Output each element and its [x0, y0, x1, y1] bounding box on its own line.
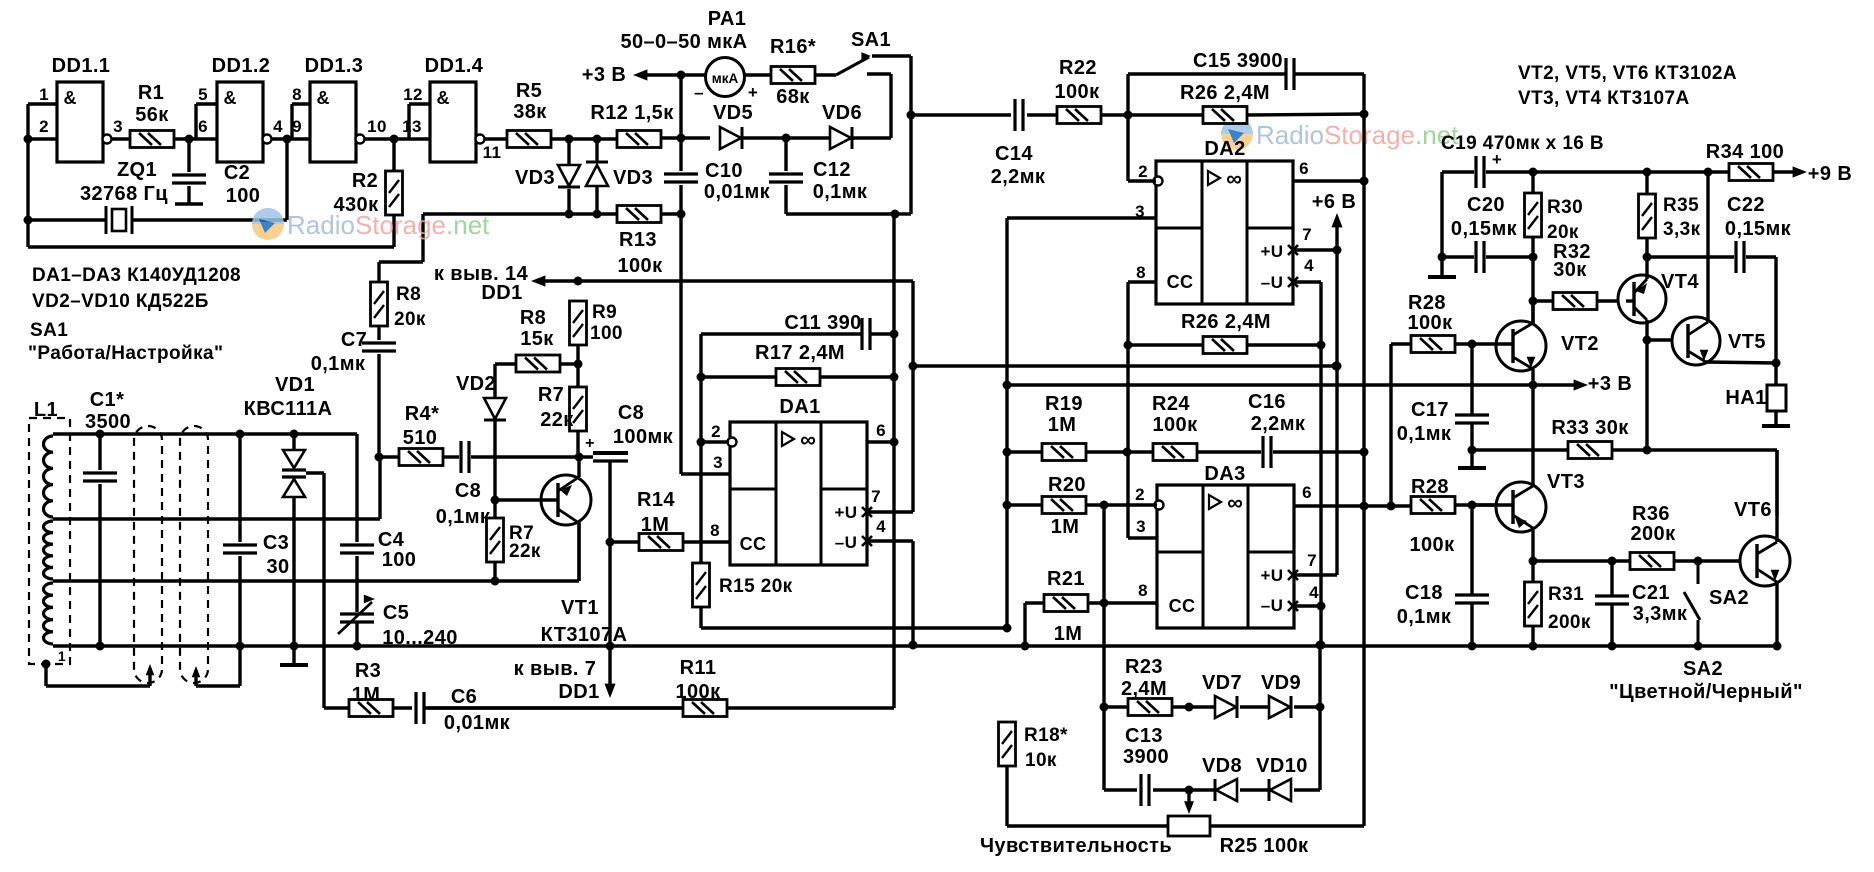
svg-text:100к: 100к	[676, 681, 722, 703]
node VT1 collector	[575, 453, 584, 462]
wire VD column right	[1318, 645, 1321, 790]
svg-text:ZQ1: ZQ1	[117, 159, 157, 181]
svg-text:VD7: VD7	[1202, 672, 1242, 694]
wire R23 row	[1104, 705, 1189, 708]
wire VT1 base	[495, 498, 558, 501]
node R19-R24 junction	[1123, 448, 1132, 457]
capacitor C12	[769, 174, 803, 182]
svg-text:VT2: VT2	[1561, 333, 1599, 355]
svg-text:C6: C6	[451, 686, 477, 708]
wire VD2 to base node	[493, 420, 496, 500]
svg-text:2,4М: 2,4М	[1121, 678, 1167, 700]
svg-text:+3 В: +3 В	[1588, 373, 1632, 395]
DA2 -U pin x	[1288, 277, 1298, 287]
svg-text:SA2: SA2	[1709, 587, 1749, 609]
svg-text:∞: ∞	[1226, 166, 1242, 191]
node R15 bus end	[1003, 624, 1012, 633]
VT5 base bar	[1686, 324, 1689, 358]
svg-text:–: –	[694, 83, 704, 102]
capacitor C20	[1476, 241, 1484, 273]
wire VT4 to VT5 base	[1647, 338, 1688, 341]
wire VT3 emitter	[1513, 515, 1533, 561]
wire R9 to junction	[576, 345, 579, 364]
node C12 top	[782, 134, 791, 143]
svg-text:VD5: VD5	[713, 102, 753, 124]
svg-text:3: 3	[1135, 202, 1145, 221]
inverter bubble DD1.2 pin 4	[263, 135, 272, 144]
svg-text:C3: C3	[263, 532, 289, 554]
svg-text:Чувствительность: Чувствительность	[980, 835, 1172, 857]
node VT2 base	[1468, 340, 1477, 349]
arrow к выв.14 DD1	[531, 275, 545, 286]
node rail tap C8	[606, 642, 615, 651]
sounder HA1	[1767, 385, 1786, 411]
varicap VD1	[282, 450, 306, 497]
svg-text:8: 8	[1138, 581, 1148, 600]
svg-text:C19 470мк x 16 В: C19 470мк x 16 В	[1441, 133, 1604, 154]
svg-text:R3: R3	[355, 660, 381, 682]
svg-text:0,01мк: 0,01мк	[444, 712, 511, 734]
watermark RadioStorage.net right	[1221, 118, 1459, 150]
wire R32 row	[1533, 299, 1626, 302]
svg-text:38к: 38к	[513, 101, 547, 123]
capacitor C18	[1455, 595, 1489, 603]
wire R3 to C6	[393, 706, 412, 709]
node C12 bottom junction	[891, 210, 900, 219]
node R26bot left	[1124, 341, 1133, 350]
wire common rail	[53, 644, 1777, 647]
wire R12 to VD5	[661, 136, 710, 139]
node DA3 -U junction	[1317, 602, 1326, 611]
wire VT4 base	[1626, 299, 1634, 302]
svg-text:R36: R36	[1632, 503, 1670, 525]
VT6 base bar	[1755, 544, 1758, 578]
svg-text:0,15мк: 0,15мк	[1451, 218, 1518, 240]
svg-text:C5: C5	[383, 602, 409, 624]
svg-text:DA1: DA1	[779, 396, 820, 418]
svg-text:9: 9	[292, 117, 302, 136]
inductor L1 coil	[43, 436, 53, 517]
node DA1 pin6	[890, 438, 899, 447]
wire crystal row	[28, 218, 287, 221]
node meter branch	[677, 71, 686, 80]
node C3 bottom	[236, 642, 245, 651]
switch SA1 blade	[836, 57, 869, 75]
node junction pin4-pin9 crystal tap	[283, 135, 292, 144]
wire R34 to arrow	[1773, 170, 1800, 173]
node -U rail junction	[909, 641, 918, 650]
node C13-VD8 junction	[1185, 786, 1194, 795]
svg-text:VD8: VD8	[1202, 755, 1242, 777]
wire VT3 base lead	[1472, 503, 1513, 506]
svg-text:11: 11	[483, 143, 502, 162]
wire C1 column	[98, 434, 101, 646]
node R9 top	[574, 277, 583, 286]
diode VD10	[1269, 779, 1291, 801]
capacitor C16	[1263, 436, 1271, 468]
svg-text:DD1.2: DD1.2	[212, 55, 271, 77]
svg-text:20к: 20к	[394, 309, 426, 330]
node DD1.1 input junction	[24, 135, 33, 144]
resistor R21	[1044, 595, 1088, 612]
wire C10 column	[679, 138, 682, 214]
resistor R30	[1525, 193, 1542, 237]
svg-text:1М: 1М	[1048, 414, 1077, 436]
transistor VT2	[1496, 321, 1546, 371]
svg-text:R28: R28	[1411, 476, 1449, 498]
node VT2 emitter +3V	[1529, 381, 1538, 390]
svg-text:100: 100	[226, 185, 261, 207]
wire VT6 emitter	[1757, 569, 1777, 646]
wire VD3b leads	[595, 139, 598, 214]
meter PA1	[706, 58, 745, 97]
switch SA1 blade arrow	[861, 52, 871, 59]
resistor R35	[1639, 194, 1656, 238]
wire R25 left	[1007, 766, 1168, 826]
svg-text:C2: C2	[224, 162, 250, 184]
logic gate DD1.3 box	[310, 82, 356, 162]
node VT5 emitter HA1	[1772, 359, 1781, 368]
svg-text:CC: CC	[740, 534, 767, 554]
svg-text:C15 3900: C15 3900	[1193, 50, 1283, 72]
op-amp DA1 box	[730, 422, 867, 565]
svg-text:8: 8	[292, 85, 302, 104]
node VT3 base	[1468, 501, 1477, 510]
node SA2 bottom	[1694, 642, 1703, 651]
node R30 top	[1529, 168, 1538, 177]
wire DA3 -U	[1293, 604, 1321, 607]
wire SA1 output vertical	[909, 56, 912, 214]
node coil tap 1	[42, 660, 51, 669]
diode VD6	[830, 127, 852, 149]
svg-text:–U: –U	[1261, 596, 1284, 615]
wire R11 row	[424, 706, 894, 709]
node R23 left	[1100, 703, 1109, 712]
node +U rail junction	[909, 362, 918, 371]
wire R25 right	[1210, 506, 1364, 826]
svg-text:R34 100: R34 100	[1706, 141, 1784, 163]
resistor R16*	[771, 67, 815, 84]
svg-text:R22: R22	[1059, 57, 1097, 79]
capacitor C22	[1736, 241, 1744, 273]
svg-text:15к: 15к	[520, 328, 554, 350]
VT2 emitter arrow	[1527, 357, 1536, 368]
wire C17 column	[1470, 344, 1473, 450]
svg-text:∞: ∞	[800, 427, 816, 452]
svg-text:к выв. 7: к выв. 7	[514, 658, 597, 680]
node R32 junction	[1529, 297, 1538, 306]
DA2 +U pin x	[1288, 245, 1298, 255]
transistor VT1	[541, 475, 591, 525]
svg-text:0,01мк: 0,01мк	[704, 181, 771, 203]
svg-text:100к: 100к	[1410, 534, 1456, 556]
capacitor C1	[83, 473, 117, 481]
resistor R31	[1525, 582, 1542, 626]
hook 2 arrow	[192, 666, 201, 677]
svg-text:2,2мк: 2,2мк	[991, 166, 1046, 188]
svg-text:0,1мк: 0,1мк	[1397, 606, 1452, 628]
DA3 pin 2 bubble	[1155, 501, 1164, 510]
wire R19 row	[1007, 450, 1127, 453]
resistor R19	[1042, 444, 1086, 461]
node R31 bottom	[1529, 642, 1538, 651]
svg-text:100к: 100к	[618, 255, 664, 277]
capacitor C19	[1476, 156, 1484, 188]
svg-text:+6 В: +6 В	[1312, 191, 1356, 213]
svg-text:R23: R23	[1125, 656, 1163, 678]
node VT1 base	[491, 496, 500, 505]
VT1 base bar	[556, 483, 559, 517]
wire coil top (A)	[53, 432, 357, 435]
svg-text:"Работа/Настройка": "Работа/Настройка"	[28, 343, 223, 364]
svg-text:+9 В: +9 В	[1808, 163, 1852, 185]
node +U rail right	[1332, 362, 1341, 371]
svg-text:+: +	[585, 435, 595, 452]
svg-text:510: 510	[403, 427, 438, 449]
svg-text:SA1: SA1	[30, 320, 68, 341]
wire R26top to node	[1247, 114, 1364, 115]
svg-text:4: 4	[876, 517, 886, 536]
DA1 -U pin x	[862, 536, 872, 546]
node R13 right junction	[677, 210, 686, 219]
wire +3V rail (385)	[1007, 383, 1533, 386]
node R17 right	[890, 373, 899, 382]
svg-text:2,2мк: 2,2мк	[1251, 413, 1306, 435]
svg-text:VT1: VT1	[561, 597, 599, 619]
wire VT4 emitter	[1634, 257, 1647, 293]
wire C12 column	[786, 138, 895, 214]
svg-text:200к: 200к	[1548, 612, 1591, 633]
wire C22 row	[1647, 257, 1776, 363]
node -U rail DA3	[1317, 641, 1326, 650]
svg-text:R26 2,4М: R26 2,4М	[1180, 82, 1270, 104]
wire C18 column	[1470, 505, 1473, 646]
svg-text:R25 100к: R25 100к	[1220, 835, 1309, 857]
svg-text:3,3к: 3,3к	[1663, 219, 1701, 240]
node R7 bottom on tap C	[491, 577, 500, 586]
svg-text:8: 8	[710, 521, 720, 540]
svg-text:DD1.3: DD1.3	[305, 55, 364, 77]
svg-text:4: 4	[1309, 583, 1319, 602]
arrow +6 В	[1331, 213, 1342, 227]
svg-text:56к: 56к	[135, 104, 169, 126]
wire DA3 +U	[1293, 573, 1337, 576]
resistor R34	[1729, 164, 1773, 181]
node R26bot right	[1317, 341, 1326, 350]
wire R26bot row	[1128, 343, 1321, 346]
wire HA1 column	[1774, 363, 1777, 424]
wire C14 to R22	[1027, 113, 1057, 116]
svg-text:2: 2	[711, 422, 721, 441]
inverter bubble DD1.3 pin 10	[356, 135, 365, 144]
VT4 base bar	[1632, 282, 1635, 316]
resistor R7 22к lower	[487, 518, 504, 562]
svg-text:VT3: VT3	[1547, 471, 1585, 493]
wire DA2 +U	[1293, 248, 1337, 251]
arrow +3 В right	[1574, 379, 1588, 390]
node VT3 emitter R36	[1529, 557, 1538, 566]
wire C8-100мк column	[608, 461, 611, 646]
svg-text:4: 4	[273, 117, 283, 136]
svg-text:R21: R21	[1047, 568, 1085, 590]
svg-text:6: 6	[198, 117, 208, 136]
node C15 left	[1124, 111, 1133, 120]
resistor R26 bottom	[1203, 337, 1247, 354]
wire VD6 to SA1	[852, 136, 891, 139]
VT2 base bar	[1511, 329, 1514, 363]
VT3 base bar	[1511, 490, 1514, 524]
wire R30 leads	[1531, 172, 1534, 257]
svg-text:C21: C21	[1632, 582, 1670, 604]
L1 dashed box	[29, 418, 70, 664]
svg-text:0,1мк: 0,1мк	[436, 506, 491, 528]
wire VT5 emitter	[1688, 351, 1776, 363]
resistor R4*	[399, 449, 443, 466]
resistor R1	[130, 131, 174, 148]
capacitor C10	[664, 174, 698, 182]
wire R8-15к left to VD2	[495, 364, 516, 398]
node diode bridge rail	[1316, 641, 1325, 650]
node C5 bottom	[353, 642, 362, 651]
svg-text:КТ3107А: КТ3107А	[541, 624, 628, 646]
svg-text:100: 100	[382, 549, 417, 571]
svg-text:2: 2	[1135, 485, 1145, 504]
node C21 top	[1608, 557, 1617, 566]
svg-text:+3 В: +3 В	[582, 64, 626, 86]
logic gate DD1.4 box	[430, 82, 476, 162]
wire DA2 pin2 stub	[1128, 115, 1156, 181]
resistor R5	[507, 131, 551, 148]
svg-text:+: +	[748, 83, 758, 102]
svg-text:&: &	[437, 88, 450, 108]
svg-text:R18*: R18*	[1024, 725, 1068, 746]
diode VD7	[1215, 696, 1237, 718]
inverter bubble DD1.4 pin 11	[476, 135, 485, 144]
wire VD1 column bottom	[292, 497, 295, 646]
svg-text:22к: 22к	[540, 409, 574, 431]
wire +6V vertical	[1335, 222, 1338, 575]
wire R17 row	[701, 375, 894, 378]
wire C10 branch vertical	[679, 75, 682, 138]
svg-text:"Цветной/Черный": "Цветной/Черный"	[1609, 681, 1803, 703]
wire R16 to SA1	[815, 73, 836, 76]
arrow к выв.7 DD1	[604, 684, 615, 698]
svg-text:6: 6	[1302, 483, 1312, 502]
wire VD1 column top	[292, 434, 295, 450]
svg-text:30к: 30к	[1553, 259, 1587, 281]
svg-text:3: 3	[713, 453, 723, 472]
diode VD3 right	[586, 162, 608, 186]
svg-text:SA2: SA2	[1683, 658, 1723, 680]
wire VT5 collector	[1688, 172, 1708, 335]
node VD9 right	[1316, 703, 1325, 712]
crystal ZQ1	[106, 206, 132, 234]
DA2 pin 2 bubble	[1154, 177, 1163, 186]
svg-text:20к: 20к	[1547, 222, 1579, 243]
svg-text:100к: 100к	[1153, 414, 1199, 436]
wire R25 wiper	[1187, 790, 1190, 808]
transistor VT5	[1672, 317, 1720, 365]
svg-text:R15 20к: R15 20к	[719, 576, 793, 597]
capacitor C21	[1595, 596, 1629, 604]
wire R15 bottom row	[701, 607, 1007, 628]
wire C15 loop	[1128, 74, 1364, 115]
node VD3a bottom	[565, 210, 574, 219]
wire C20 ground stub	[1440, 257, 1443, 275]
svg-text:32768 Гц: 32768 Гц	[80, 183, 168, 205]
svg-text:DD1: DD1	[481, 282, 522, 304]
node SA1 output to C14	[907, 111, 916, 120]
wire VD1 ground stub	[292, 646, 295, 663]
wire R13 to C10 bottom	[661, 212, 681, 215]
wire DA1 pin2 feedback vertical	[699, 334, 702, 563]
svg-text:R5: R5	[516, 80, 542, 102]
node SA2 top	[1694, 557, 1703, 566]
wire DA2 pin3 stub	[1007, 218, 1156, 628]
switch SA1 lower contact	[867, 74, 891, 138]
wire DD1.4 pin12 stub	[409, 104, 430, 139]
svg-text:R8: R8	[520, 307, 546, 329]
node VD3b top	[593, 135, 602, 144]
svg-text:200к: 200к	[1631, 523, 1677, 545]
logic gate DD1.2 box	[217, 82, 263, 162]
wire DA1 pin6 stub	[867, 440, 894, 443]
svg-text:R28: R28	[1408, 292, 1446, 314]
shield dashed loop 2	[180, 426, 208, 683]
wire к выв.7 stub	[608, 646, 611, 694]
resistor R26 top	[1203, 107, 1247, 124]
wire R35 leads	[1645, 172, 1648, 257]
node C11 right	[890, 330, 899, 339]
svg-text:2: 2	[39, 117, 49, 136]
svg-text:22к: 22к	[509, 541, 541, 562]
svg-text:3: 3	[1136, 517, 1146, 536]
svg-text:50–0–50 мкА: 50–0–50 мкА	[620, 31, 747, 53]
svg-text:R7: R7	[538, 384, 564, 406]
svg-text:R1: R1	[138, 82, 164, 104]
svg-text:RadioStorage.net: RadioStorage.net	[287, 210, 490, 240]
svg-text:C10: C10	[705, 160, 743, 182]
wire C19 left down	[1440, 172, 1443, 257]
VT5 emitter arrow	[1700, 350, 1709, 361]
wire DD1.2 pin5 stub	[196, 104, 217, 139]
node C1 bottom	[96, 642, 105, 651]
svg-text:30: 30	[266, 556, 289, 578]
capacitor C15	[1286, 58, 1294, 90]
transistor VT3	[1496, 482, 1546, 532]
wire DA2 output vertical	[1362, 114, 1365, 452]
svg-text:DA3: DA3	[1204, 463, 1245, 485]
C5 arrow	[364, 595, 375, 604]
wire C2 column	[187, 139, 190, 203]
resistor R18*	[999, 722, 1016, 766]
svg-text:100к: 100к	[1408, 312, 1454, 334]
svg-text:SA1: SA1	[851, 29, 891, 51]
svg-text:VD2: VD2	[456, 373, 496, 395]
svg-text:VD3: VD3	[613, 167, 653, 189]
svg-text:1М: 1М	[1054, 623, 1083, 645]
svg-text:VT4: VT4	[1661, 271, 1699, 293]
wire R13 node to R8 jog	[379, 214, 569, 282]
svg-text:C1*: C1*	[90, 389, 125, 411]
node R23-VD7 junction	[1185, 703, 1194, 712]
svg-text:&: &	[224, 88, 237, 108]
svg-text:C18: C18	[1405, 582, 1443, 604]
wire R8 to C7	[377, 326, 380, 457]
wire DA3 pin6 row	[1293, 504, 1411, 507]
wire DA1 +U	[867, 366, 913, 512]
wire R2 top lead	[392, 139, 395, 171]
